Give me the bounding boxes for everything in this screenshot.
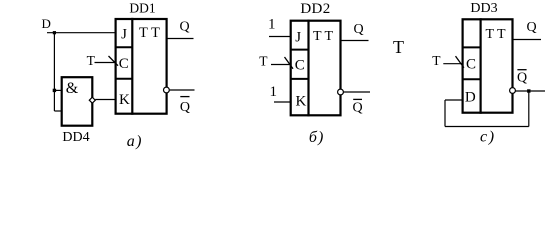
DD3 divider [480,18,482,114]
node Qbar label DD1 [180,96,189,98]
wire Qbar feedback to D input [445,99,463,101]
wire 1 to K input [274,101,291,103]
dynamic input slash DD3 [456,56,464,68]
svg-text:J: J [121,26,127,42]
wire vertical from D down [53,33,55,111]
DD2 divider [307,20,309,117]
DD3 cell line top/C [463,46,481,48]
DD1 cell line J/C [116,46,133,48]
wire Q output DD2 [341,40,369,42]
svg-text:DD3: DD3 [470,1,497,16]
DD1 cell line C/K [116,78,133,80]
wire T to C input [271,64,291,66]
svg-text:D: D [465,89,476,105]
inversion circle DD2 Qbar [338,89,344,95]
svg-text:Q: Q [180,100,190,115]
inversion circle DD1 Qbar [164,87,170,93]
wire Qbar output DD3 [515,90,545,92]
svg-text:DD4: DD4 [62,130,89,145]
svg-text:C: C [295,58,305,74]
junction dot Qbar feedback [527,89,530,92]
AND gate DD4 body [62,77,93,126]
DD3 cell line C/D [463,78,481,80]
svg-text:D: D [42,16,51,31]
wire to DD4 upper input [54,89,61,91]
svg-text:Q: Q [352,101,362,116]
flip-flop DD1 body [116,19,167,114]
wire D to J input [47,32,116,34]
svg-text:T: T [393,37,404,57]
svg-text:DD2: DD2 [300,1,330,17]
wire Q output DD1 [167,38,194,40]
node Qbar label DD3 [517,69,526,71]
svg-text:&: & [66,80,79,97]
inversion circle DD3 Qbar [510,88,516,94]
svg-text:Q: Q [179,19,189,34]
feedback left vertical wire [444,100,446,127]
svg-text:T T: T T [139,25,160,41]
svg-text:DD1: DD1 [129,1,155,16]
DD2 cell line C/K [291,78,309,80]
svg-text:Q: Q [353,22,363,37]
svg-text:1: 1 [270,84,278,100]
svg-text:1: 1 [268,17,276,33]
svg-text:T T: T T [485,27,506,42]
DD1 divider [131,18,133,115]
svg-text:T: T [432,53,441,68]
svg-text:c): c) [480,129,496,146]
wire T to C input [95,62,116,64]
DD2 cell line J/C [291,49,309,51]
svg-text:б): б) [309,129,325,146]
svg-text:C: C [119,56,129,72]
svg-text:T: T [259,54,268,69]
feedback right vertical wire [528,91,530,127]
svg-text:K: K [295,93,306,109]
svg-text:Q: Q [517,71,527,86]
junction dot upper AND input [53,89,56,92]
wire 1 to J input [269,36,291,38]
svg-text:Q: Q [526,20,536,35]
wire Qbar output DD1 [169,89,194,91]
svg-text:K: K [119,92,130,108]
junction dot at D [53,31,56,34]
dynamic input slash DD1 [109,56,119,66]
svg-text:T T: T T [313,29,334,44]
svg-text:C: C [466,57,476,73]
svg-text:T: T [87,53,96,68]
wire Qbar output DD2 [343,91,370,93]
flip-flop DD3 body [463,19,513,112]
DD4 output diamond junction [89,97,95,103]
dynamic input slash DD2 [285,57,294,69]
node Qbar label DD2 [353,98,362,100]
svg-text:J: J [295,30,301,46]
flip-flop DD2 body [291,21,341,116]
wire Q output DD3 [513,39,542,41]
wire T to C input [443,63,462,65]
svg-text:а): а) [127,133,143,150]
wire to DD4 lower input [54,110,61,112]
wire DD4 output to K input [95,99,115,101]
feedback bottom wire [445,126,529,128]
